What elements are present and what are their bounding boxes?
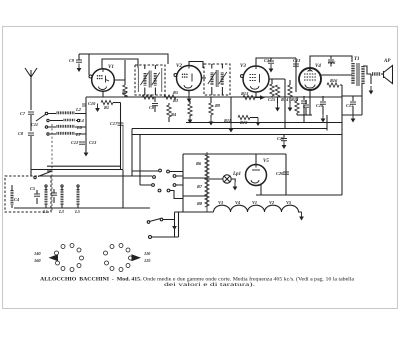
svg-text:C13: C13 — [293, 58, 301, 63]
svg-text:C9: C9 — [69, 58, 75, 63]
svg-text:V3: V3 — [240, 64, 246, 69]
svg-text:R14: R14 — [281, 97, 289, 102]
svg-text:R4: R4 — [171, 112, 177, 117]
svg-text:L6: L6 — [76, 125, 83, 130]
svg-text:R1: R1 — [104, 105, 109, 110]
svg-text:C15: C15 — [268, 97, 276, 102]
svg-text:C10: C10 — [88, 101, 96, 106]
svg-text:L3: L3 — [58, 209, 65, 214]
svg-text:L5: L5 — [74, 209, 81, 214]
svg-text:C4: C4 — [14, 197, 20, 202]
svg-text:R13: R13 — [241, 91, 249, 96]
svg-text:V5: V5 — [263, 159, 269, 164]
svg-text:L1: L1 — [42, 209, 48, 214]
svg-text:R9: R9 — [215, 103, 221, 108]
svg-text:R16: R16 — [330, 78, 338, 83]
svg-text:V2: V2 — [176, 64, 182, 69]
svg-text:L4: L4 — [78, 118, 85, 123]
svg-text:C11: C11 — [31, 122, 38, 127]
svg-text:R11: R11 — [224, 118, 231, 123]
svg-text:C8: C8 — [18, 131, 24, 136]
svg-text:L7: L7 — [75, 132, 82, 137]
svg-text:C19: C19 — [277, 136, 285, 141]
svg-text:R3: R3 — [173, 98, 179, 103]
svg-text:C13: C13 — [89, 140, 97, 145]
svg-text:R10: R10 — [240, 120, 248, 125]
svg-text:dei valori e di taratura).: dei valori e di taratura). — [164, 283, 255, 288]
svg-text:125: 125 — [144, 258, 151, 263]
svg-text:V5: V5 — [286, 200, 292, 205]
svg-text:R5: R5 — [173, 90, 179, 95]
svg-text:AP: AP — [383, 59, 391, 64]
svg-text:160: 160 — [34, 258, 41, 263]
svg-text:C8: C8 — [149, 105, 155, 110]
svg-text:C12: C12 — [71, 140, 79, 145]
svg-text:110: 110 — [144, 251, 151, 256]
svg-text:C17: C17 — [110, 121, 118, 126]
svg-text:R15: R15 — [291, 97, 299, 102]
svg-text:V2: V2 — [269, 200, 275, 205]
svg-text:V4: V4 — [315, 64, 321, 69]
svg-text:V1: V1 — [252, 200, 257, 205]
svg-text:C20: C20 — [276, 171, 284, 176]
svg-text:C5: C5 — [30, 186, 36, 191]
svg-text:V4: V4 — [235, 200, 241, 205]
svg-text:C7: C7 — [20, 111, 26, 116]
svg-text:C16: C16 — [328, 60, 336, 65]
svg-text:V1: V1 — [108, 65, 114, 70]
svg-text:V3: V3 — [218, 200, 224, 205]
svg-text:R2: R2 — [122, 90, 128, 95]
svg-text:C14: C14 — [264, 58, 272, 63]
svg-text:C18: C18 — [316, 103, 324, 108]
svg-text:L2: L2 — [75, 107, 82, 112]
svg-text:Lp1: Lp1 — [232, 172, 241, 177]
svg-text:ALLOCCHIO BACCHINI - Mod. 4: ALLOCCHIO BACCHINI - Mod. 415. Onde medi… — [40, 278, 355, 283]
svg-text:R6: R6 — [196, 161, 202, 166]
svg-text:T1: T1 — [354, 57, 360, 62]
svg-text:R7: R7 — [197, 184, 203, 189]
svg-text:C17: C17 — [346, 103, 354, 108]
svg-text:140: 140 — [34, 251, 41, 256]
svg-text:R8: R8 — [197, 201, 203, 206]
